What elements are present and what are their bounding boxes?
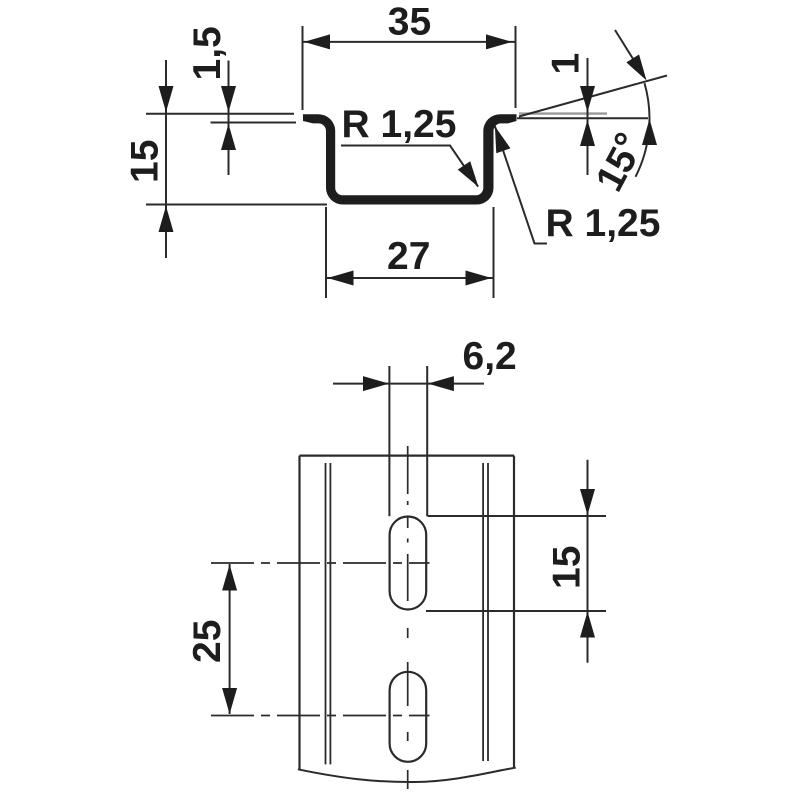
svg-text:15: 15	[124, 140, 167, 183]
svg-text:25: 25	[186, 620, 229, 663]
svg-text:35: 35	[388, 1, 431, 44]
svg-text:1: 1	[545, 53, 588, 75]
svg-text:R 1,25: R 1,25	[546, 202, 661, 245]
svg-text:R 1,25: R 1,25	[342, 103, 457, 146]
svg-text:6,2: 6,2	[463, 335, 517, 378]
svg-text:15: 15	[546, 546, 589, 589]
svg-text:27: 27	[387, 235, 430, 278]
svg-text:1,5: 1,5	[186, 26, 229, 80]
